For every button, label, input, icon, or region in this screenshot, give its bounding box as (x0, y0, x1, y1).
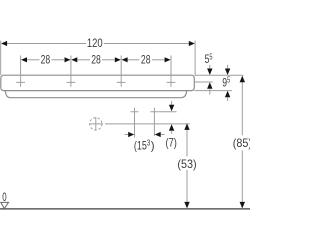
svg-text:(7): (7) (166, 135, 177, 149)
svg-text:(85): (85) (233, 136, 250, 150)
svg-text:28: 28 (141, 52, 151, 66)
svg-text:5: 5 (209, 52, 213, 61)
svg-text:28: 28 (91, 52, 101, 66)
svg-text:5: 5 (227, 76, 231, 85)
svg-text:(53): (53) (177, 157, 196, 171)
svg-text:(15: (15 (134, 139, 147, 153)
svg-text:120: 120 (87, 36, 103, 50)
svg-text:): ) (151, 139, 155, 153)
svg-text:28: 28 (41, 52, 51, 66)
